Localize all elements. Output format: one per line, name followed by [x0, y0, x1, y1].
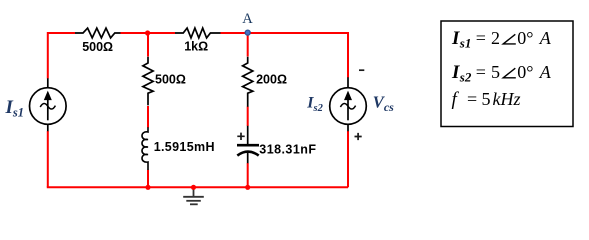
svg-text:500Ω: 500Ω	[155, 73, 186, 87]
svg-text:0°: 0°	[517, 62, 533, 82]
svg-text:=: =	[476, 62, 486, 82]
svg-text:5: 5	[491, 62, 500, 82]
svg-text:=: =	[476, 28, 486, 48]
svg-text:s2: s2	[459, 70, 472, 85]
svg-text:2: 2	[491, 28, 500, 48]
svg-text:318.31nF: 318.31nF	[259, 143, 316, 157]
svg-text:Is2: Is2	[306, 95, 323, 114]
svg-text:Vcs: Vcs	[373, 93, 394, 114]
svg-text:A: A	[539, 62, 552, 82]
svg-text:I: I	[451, 62, 460, 83]
svg-text:s1: s1	[459, 36, 472, 51]
svg-text:1.5915mH: 1.5915mH	[154, 140, 215, 154]
svg-text:A: A	[539, 28, 552, 48]
svg-text:A: A	[242, 11, 253, 27]
svg-text:kHz: kHz	[493, 89, 521, 109]
svg-text:=: =	[467, 89, 477, 109]
svg-text:Is1: Is1	[5, 97, 25, 120]
svg-text:500Ω: 500Ω	[82, 40, 113, 54]
svg-text:I: I	[451, 28, 460, 49]
svg-text:5: 5	[482, 89, 491, 109]
svg-text:200Ω: 200Ω	[256, 73, 287, 87]
svg-text:0°: 0°	[517, 28, 533, 48]
svg-text:1kΩ: 1kΩ	[184, 40, 208, 54]
